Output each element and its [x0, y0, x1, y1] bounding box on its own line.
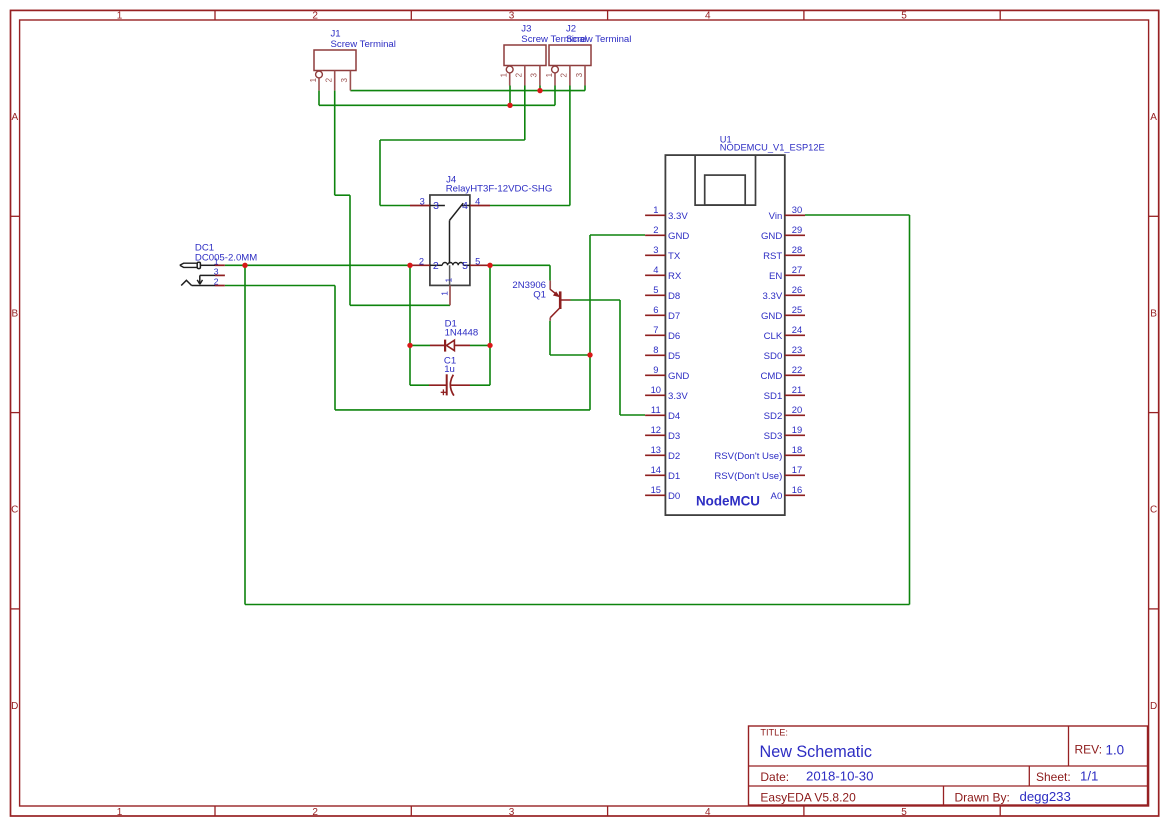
svg-text:17: 17	[792, 464, 802, 475]
svg-text:D4: D4	[668, 411, 681, 422]
svg-text:22: 22	[792, 364, 802, 375]
svg-text:D3: D3	[668, 431, 680, 442]
svg-text:SD2: SD2	[764, 411, 783, 422]
svg-text:New Schematic: New Schematic	[760, 743, 872, 761]
svg-text:5: 5	[901, 10, 907, 21]
svg-text:9: 9	[653, 364, 658, 375]
svg-text:D: D	[11, 701, 18, 712]
svg-text:7: 7	[653, 324, 658, 335]
svg-text:D0: D0	[668, 491, 680, 502]
svg-text:RSV(Don't Use): RSV(Don't Use)	[714, 451, 782, 462]
svg-text:2: 2	[560, 72, 569, 77]
svg-text:3: 3	[509, 10, 515, 21]
svg-text:3: 3	[214, 267, 219, 277]
svg-text:29: 29	[792, 224, 802, 235]
svg-text:D5: D5	[668, 351, 680, 362]
svg-text:27: 27	[792, 264, 802, 275]
svg-text:1: 1	[309, 77, 318, 82]
svg-text:23: 23	[792, 344, 802, 355]
svg-text:2: 2	[653, 224, 658, 235]
svg-text:4: 4	[462, 200, 468, 212]
svg-text:3.3V: 3.3V	[763, 291, 783, 302]
svg-text:EasyEDA V5.8.20: EasyEDA V5.8.20	[760, 791, 856, 805]
svg-text:15: 15	[651, 484, 661, 495]
svg-text:6: 6	[653, 304, 658, 315]
svg-text:3: 3	[340, 77, 349, 82]
svg-text:1: 1	[500, 72, 509, 77]
svg-text:D: D	[1150, 701, 1157, 712]
svg-text:26: 26	[792, 284, 802, 295]
svg-text:GND: GND	[668, 371, 689, 382]
svg-text:4: 4	[705, 10, 711, 21]
svg-text:25: 25	[792, 304, 802, 315]
svg-text:D8: D8	[668, 291, 680, 302]
svg-text:8: 8	[653, 344, 658, 355]
svg-text:5: 5	[462, 260, 468, 272]
svg-text:11: 11	[651, 404, 661, 415]
svg-text:1/1: 1/1	[1080, 768, 1098, 783]
svg-text:2: 2	[214, 277, 219, 287]
svg-text:10: 10	[651, 384, 661, 395]
svg-text:A0: A0	[771, 491, 783, 502]
svg-text:GND: GND	[761, 311, 782, 322]
svg-text:21: 21	[792, 384, 802, 395]
svg-text:GND: GND	[761, 231, 782, 242]
svg-text:4: 4	[475, 197, 480, 207]
svg-text:13: 13	[651, 444, 661, 455]
svg-text:A: A	[11, 112, 18, 123]
svg-text:SD1: SD1	[764, 391, 783, 402]
svg-text:2018-10-30: 2018-10-30	[806, 768, 873, 783]
svg-text:A: A	[1150, 112, 1157, 123]
svg-text:20: 20	[792, 404, 802, 415]
svg-text:D2: D2	[668, 451, 680, 462]
svg-text:NodeMCU: NodeMCU	[696, 493, 760, 508]
svg-text:1: 1	[117, 807, 123, 818]
svg-text:5: 5	[653, 284, 658, 295]
svg-text:Screw Terminal: Screw Terminal	[566, 34, 631, 45]
svg-text:3: 3	[420, 197, 425, 207]
svg-text:3: 3	[653, 244, 658, 255]
svg-text:B: B	[1150, 309, 1157, 320]
svg-text:Screw Terminal: Screw Terminal	[331, 39, 396, 50]
svg-text:19: 19	[792, 424, 802, 435]
svg-text:2: 2	[515, 72, 524, 77]
svg-text:B: B	[11, 309, 18, 320]
svg-text:16: 16	[792, 484, 802, 495]
svg-text:EN: EN	[769, 271, 782, 282]
svg-text:2: 2	[325, 77, 334, 82]
svg-text:12: 12	[651, 424, 661, 435]
svg-text:D6: D6	[668, 331, 680, 342]
svg-text:1: 1	[444, 277, 454, 282]
svg-text:Drawn By:: Drawn By:	[955, 791, 1010, 805]
svg-text:D7: D7	[668, 311, 680, 322]
svg-text:SD3: SD3	[764, 431, 783, 442]
svg-text:14: 14	[651, 464, 661, 475]
svg-text:CMD: CMD	[760, 371, 782, 382]
svg-text:1: 1	[545, 72, 554, 77]
svg-text:3.3V: 3.3V	[668, 211, 688, 222]
svg-text:RelayHT3F-12VDC-SHG: RelayHT3F-12VDC-SHG	[446, 184, 553, 195]
svg-text:18: 18	[792, 444, 802, 455]
svg-text:2: 2	[312, 10, 318, 21]
svg-text:RSV(Don't Use): RSV(Don't Use)	[714, 471, 782, 482]
svg-text:1: 1	[117, 10, 123, 21]
svg-text:2: 2	[419, 256, 424, 266]
svg-text:CLK: CLK	[764, 331, 783, 342]
svg-text:3: 3	[509, 807, 515, 818]
svg-text:1N4448: 1N4448	[445, 328, 479, 339]
svg-text:2: 2	[433, 260, 439, 272]
svg-text:REV:: REV:	[1075, 743, 1103, 757]
svg-text:5: 5	[901, 807, 907, 818]
svg-text:3.3V: 3.3V	[668, 391, 688, 402]
svg-text:RST: RST	[763, 251, 782, 262]
svg-text:1: 1	[214, 257, 219, 267]
svg-text:C: C	[11, 505, 18, 516]
svg-text:1u: 1u	[444, 364, 455, 375]
svg-text:4: 4	[705, 807, 711, 818]
svg-text:1: 1	[653, 204, 658, 215]
svg-text:4: 4	[653, 264, 658, 275]
svg-text:degg233: degg233	[1020, 789, 1071, 804]
svg-text:30: 30	[792, 204, 802, 215]
svg-text:NODEMCU_V1_ESP12E: NODEMCU_V1_ESP12E	[720, 143, 825, 153]
svg-text:DC005-2.0MM: DC005-2.0MM	[195, 252, 257, 263]
svg-text:1: 1	[439, 291, 449, 296]
svg-text:Vin: Vin	[769, 211, 783, 222]
svg-text:Sheet:: Sheet:	[1036, 770, 1071, 784]
svg-text:SD0: SD0	[764, 351, 783, 362]
svg-text:GND: GND	[668, 231, 689, 242]
svg-text:2: 2	[312, 807, 318, 818]
svg-text:3: 3	[575, 72, 584, 77]
svg-text:3: 3	[530, 72, 539, 77]
svg-text:RX: RX	[668, 271, 682, 282]
svg-text:28: 28	[792, 244, 802, 255]
svg-text:TX: TX	[668, 251, 681, 262]
svg-text:24: 24	[792, 324, 802, 335]
svg-text:Date:: Date:	[760, 770, 789, 784]
svg-text:TITLE:: TITLE:	[760, 727, 788, 737]
svg-text:Q1: Q1	[533, 290, 546, 301]
svg-text:D1: D1	[668, 471, 680, 482]
svg-text:5: 5	[475, 256, 480, 266]
svg-text:C: C	[1150, 505, 1157, 516]
svg-text:3: 3	[433, 200, 439, 212]
svg-text:1.0: 1.0	[1106, 742, 1125, 757]
